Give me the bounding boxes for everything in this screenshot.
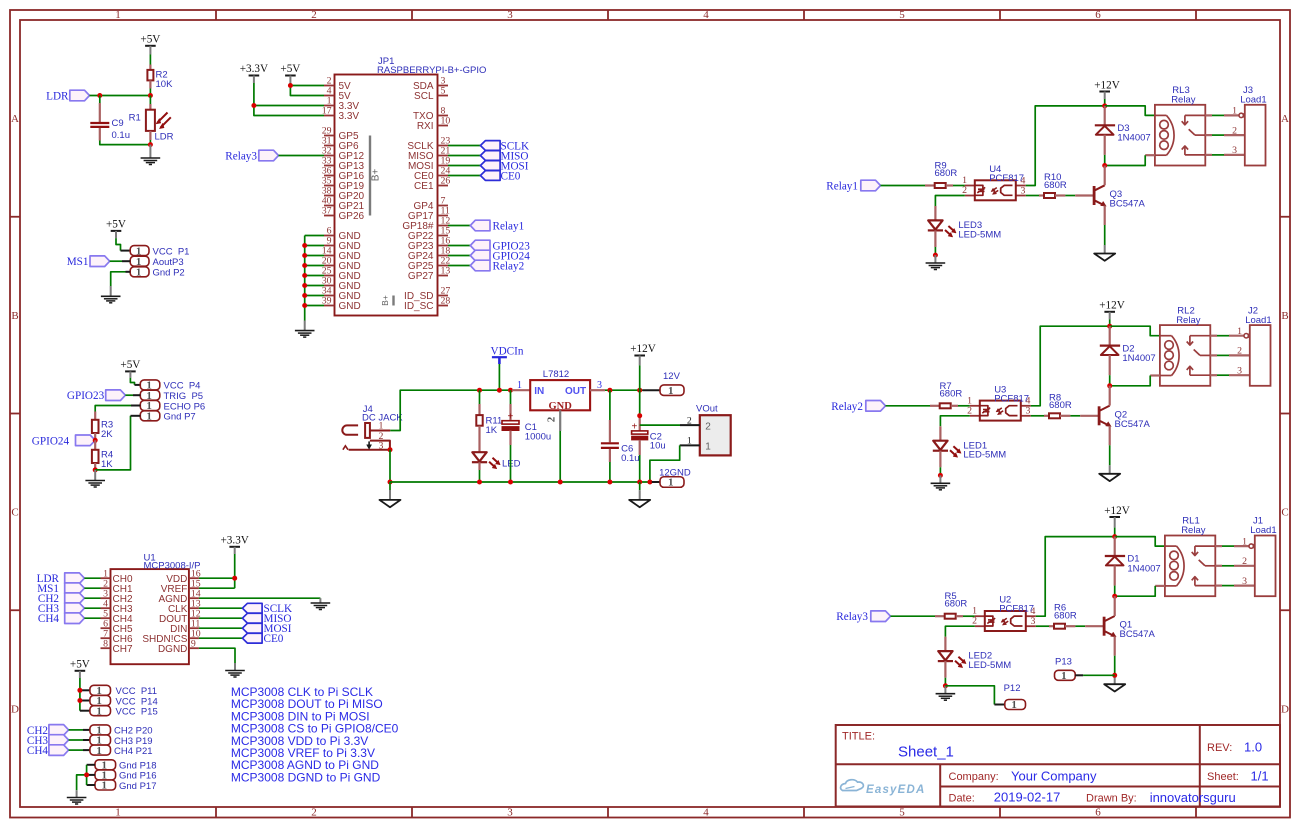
wire RL2 contact to J2 pin 1 bbox=[1210, 335, 1250, 337]
svg-text:+3.3V: +3.3V bbox=[221, 534, 249, 546]
svg-text:Gnd P7: Gnd P7 bbox=[164, 412, 196, 423]
LED LED3 LED-5MM bbox=[928, 206, 1001, 247]
net flag Relay2 bbox=[470, 260, 490, 271]
wire GND bus bbox=[305, 236, 324, 321]
svg-text:RXI: RXI bbox=[417, 121, 434, 132]
connector VOut bbox=[680, 403, 731, 455]
svg-text:B+: B+ bbox=[380, 295, 390, 306]
connector P13 bbox=[1055, 657, 1076, 682]
wire AGND to ground bbox=[199, 597, 321, 599]
wire U1 to MISO flag bbox=[199, 617, 243, 619]
svg-text:L7812: L7812 bbox=[543, 369, 569, 380]
wire U2 pin4 to +12V bbox=[1036, 537, 1115, 617]
B+ group bar (ID bank) bbox=[380, 295, 394, 306]
connector VCC P15 bbox=[90, 705, 158, 717]
U1 pin 2 (CH1) bbox=[101, 578, 133, 594]
wire U1 to CE0 flag bbox=[199, 637, 243, 639]
ground (LED2) bbox=[936, 686, 956, 700]
net flag Relay2 (relay input) bbox=[866, 401, 886, 412]
JP1 pin 25 (GND) bbox=[322, 266, 361, 282]
svg-text:1: 1 bbox=[136, 267, 142, 279]
wire CH2 to connector bbox=[69, 729, 90, 731]
diode D2 1N4007 bbox=[1100, 326, 1156, 375]
net flag GPIO23 bbox=[106, 390, 126, 401]
junction (LED ground node) bbox=[943, 683, 948, 688]
svg-text:CH4 P21: CH4 P21 bbox=[114, 746, 153, 757]
wire Relay1 to R9 bbox=[881, 185, 926, 187]
wire R7 to U3 pin1 bbox=[958, 405, 970, 407]
power flag +3.3V (JP1) bbox=[240, 63, 268, 83]
ground (Q3 emitter) bbox=[1094, 254, 1115, 261]
junction (LED ground node) bbox=[933, 253, 938, 258]
ground (supply bottom rail) bbox=[629, 482, 650, 507]
JP1 pin 6 (GND) bbox=[324, 226, 361, 242]
svg-text:PCF817: PCF817 bbox=[994, 393, 1029, 404]
net flag MS1 bbox=[90, 256, 110, 267]
wire R9 to U4 pin1 bbox=[953, 185, 965, 187]
wire J4 pin1 to input rail bbox=[390, 390, 512, 430]
resistor R11 1K bbox=[476, 390, 502, 437]
junction (bottom rail left) bbox=[388, 480, 393, 485]
svg-text:+5V: +5V bbox=[70, 658, 90, 670]
svg-text:LDR: LDR bbox=[46, 91, 69, 103]
svg-text:Your Company: Your Company bbox=[1011, 769, 1097, 784]
regulator U? L7812 bbox=[512, 369, 605, 431]
wire RL2 coil bottom to collector bbox=[1110, 376, 1160, 386]
net flag MOSI (U1) bbox=[242, 623, 262, 633]
junction (+12V node) bbox=[637, 388, 642, 393]
EasyEDA logo bbox=[841, 780, 926, 796]
net flag MOSI bbox=[480, 161, 500, 171]
LED LED2 LED-5MM bbox=[938, 637, 1011, 678]
svg-text:3: 3 bbox=[1232, 145, 1237, 156]
junction (GND bus) bbox=[302, 283, 307, 288]
junction (LED/rail) bbox=[477, 480, 482, 485]
svg-text:GND: GND bbox=[339, 301, 361, 312]
svg-text:37: 37 bbox=[322, 206, 332, 217]
svg-text:2: 2 bbox=[311, 9, 317, 21]
ground (JP1 GND bus) bbox=[295, 321, 315, 338]
svg-text:OUT: OUT bbox=[565, 386, 586, 397]
wire R2 to node LDRdiv bbox=[149, 89, 151, 96]
power flag +5V (VCC P11 group) bbox=[70, 658, 90, 678]
svg-text:Relay3: Relay3 bbox=[836, 611, 868, 623]
optocoupler U2 PCF817 bbox=[972, 595, 1036, 631]
svg-text:EasyEDA: EasyEDA bbox=[866, 784, 926, 796]
svg-text:3: 3 bbox=[1031, 616, 1036, 627]
svg-text:3: 3 bbox=[507, 807, 513, 819]
svg-text:CH7: CH7 bbox=[113, 644, 133, 655]
svg-text:1: 1 bbox=[687, 436, 692, 447]
wire C9 to ground rail bbox=[100, 141, 151, 145]
wire pin to SCLK flag bbox=[448, 145, 480, 147]
wire D1 to collector node bbox=[1114, 586, 1116, 597]
wire U3 pin4 to +12V bbox=[1031, 326, 1110, 406]
wire +5V to VCC P1 bbox=[116, 238, 121, 250]
power flag +12V (relay coil) bbox=[1094, 79, 1120, 99]
relay RL3 bbox=[1155, 85, 1205, 166]
net flag Relay3 (relay input) bbox=[871, 611, 891, 622]
wire +3.3V to pins 1,17 bbox=[254, 83, 324, 116]
svg-text:GP26: GP26 bbox=[339, 211, 365, 222]
JP1 pin 13 (GP27) bbox=[408, 266, 450, 282]
junction (C1) bbox=[508, 388, 513, 393]
JP1 pin 14 (GND) bbox=[322, 246, 361, 262]
svg-text:C9: C9 bbox=[112, 118, 124, 129]
svg-text:C: C bbox=[11, 507, 18, 519]
svg-text:PCF817: PCF817 bbox=[989, 173, 1024, 184]
ground (Q1 emitter) bbox=[1104, 684, 1125, 691]
connector VCC P4 bbox=[140, 380, 200, 392]
JP1 pin 12 (GP18#) bbox=[402, 216, 450, 232]
JP1 pin 11 (GP17) bbox=[408, 206, 450, 222]
JP1 pin 22 (GP25) bbox=[408, 256, 450, 272]
svg-text:1: 1 bbox=[115, 807, 121, 819]
JP1 pin 4 (5V) bbox=[324, 86, 351, 102]
connector CH3 P19 bbox=[90, 735, 153, 747]
wire pin to MOSI flag bbox=[448, 165, 480, 167]
resistor R7 680R bbox=[930, 381, 962, 409]
wire pin to MISO flag bbox=[448, 155, 480, 157]
photoresistor R1 LDR bbox=[129, 96, 174, 143]
svg-text:3: 3 bbox=[507, 9, 513, 21]
svg-text:1: 1 bbox=[1011, 699, 1017, 711]
junction (ground node) bbox=[148, 142, 153, 147]
U1 pin 6 (CH5) bbox=[101, 618, 133, 634]
svg-text:P12: P12 bbox=[1004, 683, 1021, 694]
U1 pin 7 (CH6) bbox=[101, 628, 133, 644]
junction (Gnd P16) bbox=[84, 772, 89, 777]
svg-text:1: 1 bbox=[668, 477, 674, 489]
svg-text:4: 4 bbox=[703, 807, 709, 819]
svg-text:Relay2: Relay2 bbox=[831, 401, 863, 413]
svg-text:1: 1 bbox=[96, 705, 102, 717]
svg-text:2019-02-17: 2019-02-17 bbox=[994, 790, 1061, 805]
svg-text:+5V: +5V bbox=[140, 33, 160, 45]
svg-text:3: 3 bbox=[1242, 576, 1247, 587]
junction (GND bus) bbox=[302, 293, 307, 298]
svg-text:Drawn By:: Drawn By: bbox=[1086, 793, 1137, 805]
net flag Relay1 (relay input) bbox=[861, 180, 881, 191]
svg-text:GND: GND bbox=[549, 401, 573, 412]
wire LDR to U1 bbox=[84, 577, 100, 579]
junction (collector node) bbox=[1102, 163, 1107, 168]
junction (L7812 GND) bbox=[558, 480, 563, 485]
svg-text:1: 1 bbox=[1242, 536, 1247, 547]
svg-text:A: A bbox=[1281, 113, 1289, 125]
net flag CE0 bbox=[480, 171, 500, 181]
power flag +5V (MS1) bbox=[106, 219, 126, 239]
svg-text:LED-5MM: LED-5MM bbox=[963, 450, 1006, 461]
connector J1 Load1 bbox=[1250, 516, 1276, 597]
wire CH3 to connector bbox=[69, 739, 90, 741]
net flag GPIO24 bbox=[470, 250, 490, 261]
svg-text:B: B bbox=[11, 310, 18, 322]
svg-text:1: 1 bbox=[1232, 106, 1237, 117]
wire RL2 contact to J2 pin 2 bbox=[1210, 354, 1250, 356]
wire +12V to RL1 coil bbox=[1115, 537, 1165, 547]
svg-text:3: 3 bbox=[379, 440, 384, 451]
svg-text:P13: P13 bbox=[1055, 657, 1072, 668]
svg-text:D: D bbox=[11, 703, 19, 715]
JP1 pin 34 (GND) bbox=[322, 286, 361, 302]
resistor R8 680R bbox=[1031, 392, 1072, 418]
junction (GND bus) bbox=[302, 303, 307, 308]
svg-text:3: 3 bbox=[1021, 185, 1026, 196]
svg-text:ID_SC: ID_SC bbox=[404, 301, 433, 312]
svg-text:MCP3008 DGND to Pi GND: MCP3008 DGND to Pi GND bbox=[231, 770, 381, 784]
svg-text:Sheet:: Sheet: bbox=[1207, 771, 1239, 783]
U1 pin 12 (DOUT) bbox=[159, 608, 201, 624]
optocoupler U4 PCF817 bbox=[962, 164, 1026, 200]
svg-text:0.1u: 0.1u bbox=[621, 453, 640, 464]
U1 pin 10 (SHDN!CS) bbox=[142, 628, 200, 644]
JP1 pin 35 (GP19) bbox=[322, 176, 365, 192]
connector 12GND bbox=[652, 467, 691, 488]
connector CH2 P20 bbox=[90, 725, 153, 737]
svg-text:12V: 12V bbox=[663, 371, 681, 382]
wire pin to GPIO23 flag bbox=[448, 245, 470, 247]
resistor R2 10K bbox=[147, 65, 173, 91]
svg-text:Relay3: Relay3 bbox=[225, 151, 257, 163]
no-connect circle (contact pin 1) bbox=[1249, 544, 1257, 548]
net flag MISO (U1) bbox=[242, 613, 262, 623]
connector Gnd P18 bbox=[95, 760, 157, 772]
wire P13 to emitter bbox=[1075, 674, 1115, 676]
junction node (R2/R1) bbox=[148, 93, 153, 98]
wire LED2 to ground bbox=[944, 678, 946, 686]
resistor R10 680R bbox=[1026, 172, 1067, 198]
relay RL2 bbox=[1160, 305, 1210, 386]
svg-text:REV:: REV: bbox=[1207, 742, 1232, 754]
ground (Gnd P16/17/18) bbox=[67, 790, 87, 804]
wire RL1 contact to J1 pin 2 bbox=[1215, 565, 1255, 567]
wire U1 to MOSI flag bbox=[199, 627, 243, 629]
net flag Relay1 bbox=[470, 220, 490, 231]
wire Gnd pins to ground bbox=[77, 765, 95, 791]
svg-text:B+: B+ bbox=[371, 169, 382, 182]
net flag GPIO24 bbox=[76, 435, 96, 446]
wire +5V to VCC P4 bbox=[130, 378, 134, 385]
svg-text:680R: 680R bbox=[1044, 180, 1067, 191]
JP1 pin 32 (GP12) bbox=[322, 146, 365, 162]
svg-text:1: 1 bbox=[96, 745, 102, 757]
wire LED1 to ground bbox=[939, 467, 941, 475]
wire pin to Relay1 flag bbox=[448, 225, 470, 227]
svg-text:5: 5 bbox=[899, 807, 905, 819]
svg-text:MS1: MS1 bbox=[67, 256, 89, 268]
connector VCC P1 bbox=[130, 245, 189, 257]
svg-text:BC547A: BC547A bbox=[1115, 419, 1151, 430]
svg-text:1: 1 bbox=[379, 421, 384, 432]
wire Q1 emitter to ground bbox=[1114, 636, 1116, 684]
wire GPIO23 to TRIG P5 bbox=[125, 394, 140, 396]
wire C6 to bottom rail bbox=[609, 462, 611, 482]
svg-text:Relay: Relay bbox=[1171, 95, 1196, 106]
JP1 pin 19 (MOSI) bbox=[408, 156, 450, 172]
LED (power indicator) bbox=[472, 437, 521, 470]
svg-text:28: 28 bbox=[441, 296, 451, 307]
wire RL3 contact to J3 pin 3 bbox=[1205, 154, 1245, 156]
resistor R4 1K bbox=[92, 440, 113, 470]
wire C2 to bottom rail bbox=[639, 455, 641, 482]
svg-text:10u: 10u bbox=[650, 441, 666, 452]
wire pin to Relay2 flag bbox=[448, 265, 470, 267]
power flag +12V (relay coil) bbox=[1099, 300, 1125, 320]
wire RL3 contact to J3 pin 2 bbox=[1205, 134, 1245, 136]
svg-text:+12V: +12V bbox=[630, 343, 656, 355]
net flag Relay3 (to GP12) bbox=[259, 150, 279, 161]
junction (VDD +3.3V) bbox=[232, 576, 237, 581]
resistor R3 2K bbox=[92, 412, 113, 441]
wire OUT rail bbox=[605, 389, 643, 391]
net flag MS1 (U1 input) bbox=[65, 583, 85, 594]
connector VCC P11 bbox=[90, 685, 157, 697]
JP1 pin 40 (GP21) bbox=[322, 196, 365, 212]
svg-text:Load1: Load1 bbox=[1245, 315, 1271, 326]
junction (C2/rail) bbox=[637, 480, 642, 485]
svg-text:680R: 680R bbox=[940, 388, 963, 399]
junction node (C9 tap) bbox=[97, 93, 102, 98]
wire +5V to pins 2,4 bbox=[290, 83, 324, 96]
wire D2 to collector node bbox=[1109, 375, 1111, 386]
svg-text:9: 9 bbox=[191, 638, 196, 649]
net flag LDR (U1 input) bbox=[65, 573, 85, 584]
svg-text:10K: 10K bbox=[156, 79, 174, 90]
net flag GPIO23 bbox=[470, 240, 490, 251]
wire LDR flag to divider node bbox=[90, 95, 151, 97]
svg-text:1: 1 bbox=[102, 780, 108, 792]
svg-text:+5V: +5V bbox=[280, 63, 300, 75]
svg-text:1N4007: 1N4007 bbox=[1117, 133, 1150, 144]
svg-text:Gnd P2: Gnd P2 bbox=[153, 268, 185, 279]
connector J4 DC JACK bbox=[342, 404, 403, 451]
connector Gnd P16 bbox=[95, 770, 157, 782]
JP1 pin 15 (GP22) bbox=[408, 226, 450, 242]
svg-text:Load1: Load1 bbox=[1240, 95, 1266, 106]
title block bbox=[836, 725, 1280, 807]
svg-text:680R: 680R bbox=[1054, 611, 1077, 622]
wire +5V to R2 bbox=[149, 55, 151, 65]
wire RL3 coil bottom to collector bbox=[1105, 155, 1155, 165]
wire LED ground node to P12 bbox=[945, 686, 994, 705]
svg-text:2: 2 bbox=[1237, 346, 1242, 357]
junction (collector node) bbox=[1112, 594, 1117, 599]
wire U2 pin2 to LED2 bbox=[945, 626, 974, 637]
JP1 pin 5 (SCL) bbox=[414, 86, 448, 102]
svg-text:6: 6 bbox=[1095, 807, 1101, 819]
capacitor C1 1000u bbox=[502, 390, 551, 445]
U1 pin 1 (CH0) bbox=[101, 568, 133, 584]
wire U1 to SCLK flag bbox=[199, 607, 243, 609]
JP1 pin 18 (GP24) bbox=[408, 246, 450, 262]
svg-text:BC547A: BC547A bbox=[1120, 629, 1156, 640]
wire MS1 to U1 bbox=[84, 587, 100, 589]
JP1 pin 29 (GP5) bbox=[322, 126, 359, 142]
JP1 pin 28 (ID_SC) bbox=[404, 296, 450, 312]
wire +12V stem bbox=[1104, 99, 1106, 106]
svg-text:+3.3V: +3.3V bbox=[240, 63, 268, 75]
svg-text:TITLE:: TITLE: bbox=[842, 731, 875, 743]
svg-text:1K: 1K bbox=[486, 425, 498, 436]
net flag CH4 (U1 input) bbox=[65, 613, 85, 624]
wire pin to GPIO24 flag bbox=[448, 255, 470, 257]
relay RL1 bbox=[1165, 516, 1215, 597]
ground (MS1) bbox=[101, 286, 121, 303]
wire LED to bottom rail bbox=[479, 470, 481, 482]
svg-text:Relay: Relay bbox=[1176, 315, 1201, 326]
wire +12V stem bbox=[1109, 319, 1111, 326]
junction (+5V) bbox=[288, 83, 293, 88]
JP1 pin 36 (GP16) bbox=[322, 166, 365, 182]
net flag CH3 (U1 input) bbox=[65, 603, 85, 614]
net flag CH4 bbox=[49, 745, 69, 756]
net flag LDR bbox=[70, 90, 90, 101]
wire ECHO P6 to R3 bbox=[95, 406, 140, 412]
svg-text:innovatorsguru: innovatorsguru bbox=[1150, 790, 1236, 805]
svg-text:1: 1 bbox=[1061, 670, 1067, 682]
wire CH2 to U1 bbox=[84, 597, 100, 599]
junction (R11) bbox=[477, 388, 482, 393]
junction (+12V node) bbox=[1102, 103, 1107, 108]
wire bottom rail bbox=[390, 481, 652, 483]
svg-text:VDCIn: VDCIn bbox=[491, 345, 524, 357]
JP1 pin 39 (GND) bbox=[322, 296, 361, 312]
ground (LDR divider) bbox=[141, 145, 161, 165]
net flag CE0 (U1) bbox=[242, 633, 262, 643]
svg-text:R1: R1 bbox=[129, 113, 141, 124]
junction (GND bus) bbox=[302, 243, 307, 248]
wire RL1 coil bottom to collector bbox=[1115, 586, 1165, 596]
net flag CH2 (U1 input) bbox=[65, 593, 85, 604]
svg-text:+12V: +12V bbox=[1104, 505, 1130, 517]
note text MCP3008 wiring bbox=[231, 685, 399, 784]
ground (LED1) bbox=[931, 475, 951, 489]
JP1 pin 37 (GP26) bbox=[322, 206, 365, 222]
connector P12 bbox=[994, 683, 1025, 711]
wire VOut pin2 to +12V node bbox=[640, 424, 680, 426]
svg-text:2: 2 bbox=[311, 807, 317, 819]
transistor Q2 BC547A bbox=[1099, 386, 1150, 430]
connector Aout P3 bbox=[130, 256, 183, 268]
JP1 pin 23 (SCLK) bbox=[407, 136, 450, 152]
svg-text:+12V: +12V bbox=[1099, 300, 1125, 312]
svg-text:GPIO23: GPIO23 bbox=[67, 390, 105, 402]
JP1 pin 8 (TXO) bbox=[413, 106, 448, 122]
svg-text:Relay2: Relay2 bbox=[493, 261, 525, 273]
U1 pin 3 (CH2) bbox=[101, 588, 133, 604]
svg-text:VOut: VOut bbox=[696, 403, 718, 414]
no-connect circle (contact pin 1) bbox=[1239, 113, 1247, 117]
svg-text:Load1: Load1 bbox=[1250, 525, 1276, 536]
svg-text:Company:: Company: bbox=[949, 771, 999, 783]
svg-text:Sheet_1: Sheet_1 bbox=[898, 744, 954, 761]
JP1 pin 31 (GP6) bbox=[322, 136, 359, 152]
optocoupler U3 PCF817 bbox=[967, 384, 1031, 420]
capacitor C6 0.1u bbox=[601, 390, 640, 464]
svg-text:CH4: CH4 bbox=[27, 745, 49, 757]
diode D3 1N4007 bbox=[1095, 106, 1151, 155]
svg-text:CE1: CE1 bbox=[414, 181, 434, 192]
power flag +5V (HC-SR04 conn) bbox=[120, 359, 140, 378]
net port VDCIn bbox=[491, 345, 524, 364]
svg-text:4: 4 bbox=[703, 9, 709, 21]
ADC U1 MCP3008-I/P bbox=[111, 553, 201, 665]
svg-text:2: 2 bbox=[687, 415, 692, 426]
svg-text:Date:: Date: bbox=[949, 793, 975, 805]
svg-text:2: 2 bbox=[1242, 556, 1247, 567]
ground (DGND) bbox=[225, 663, 245, 677]
